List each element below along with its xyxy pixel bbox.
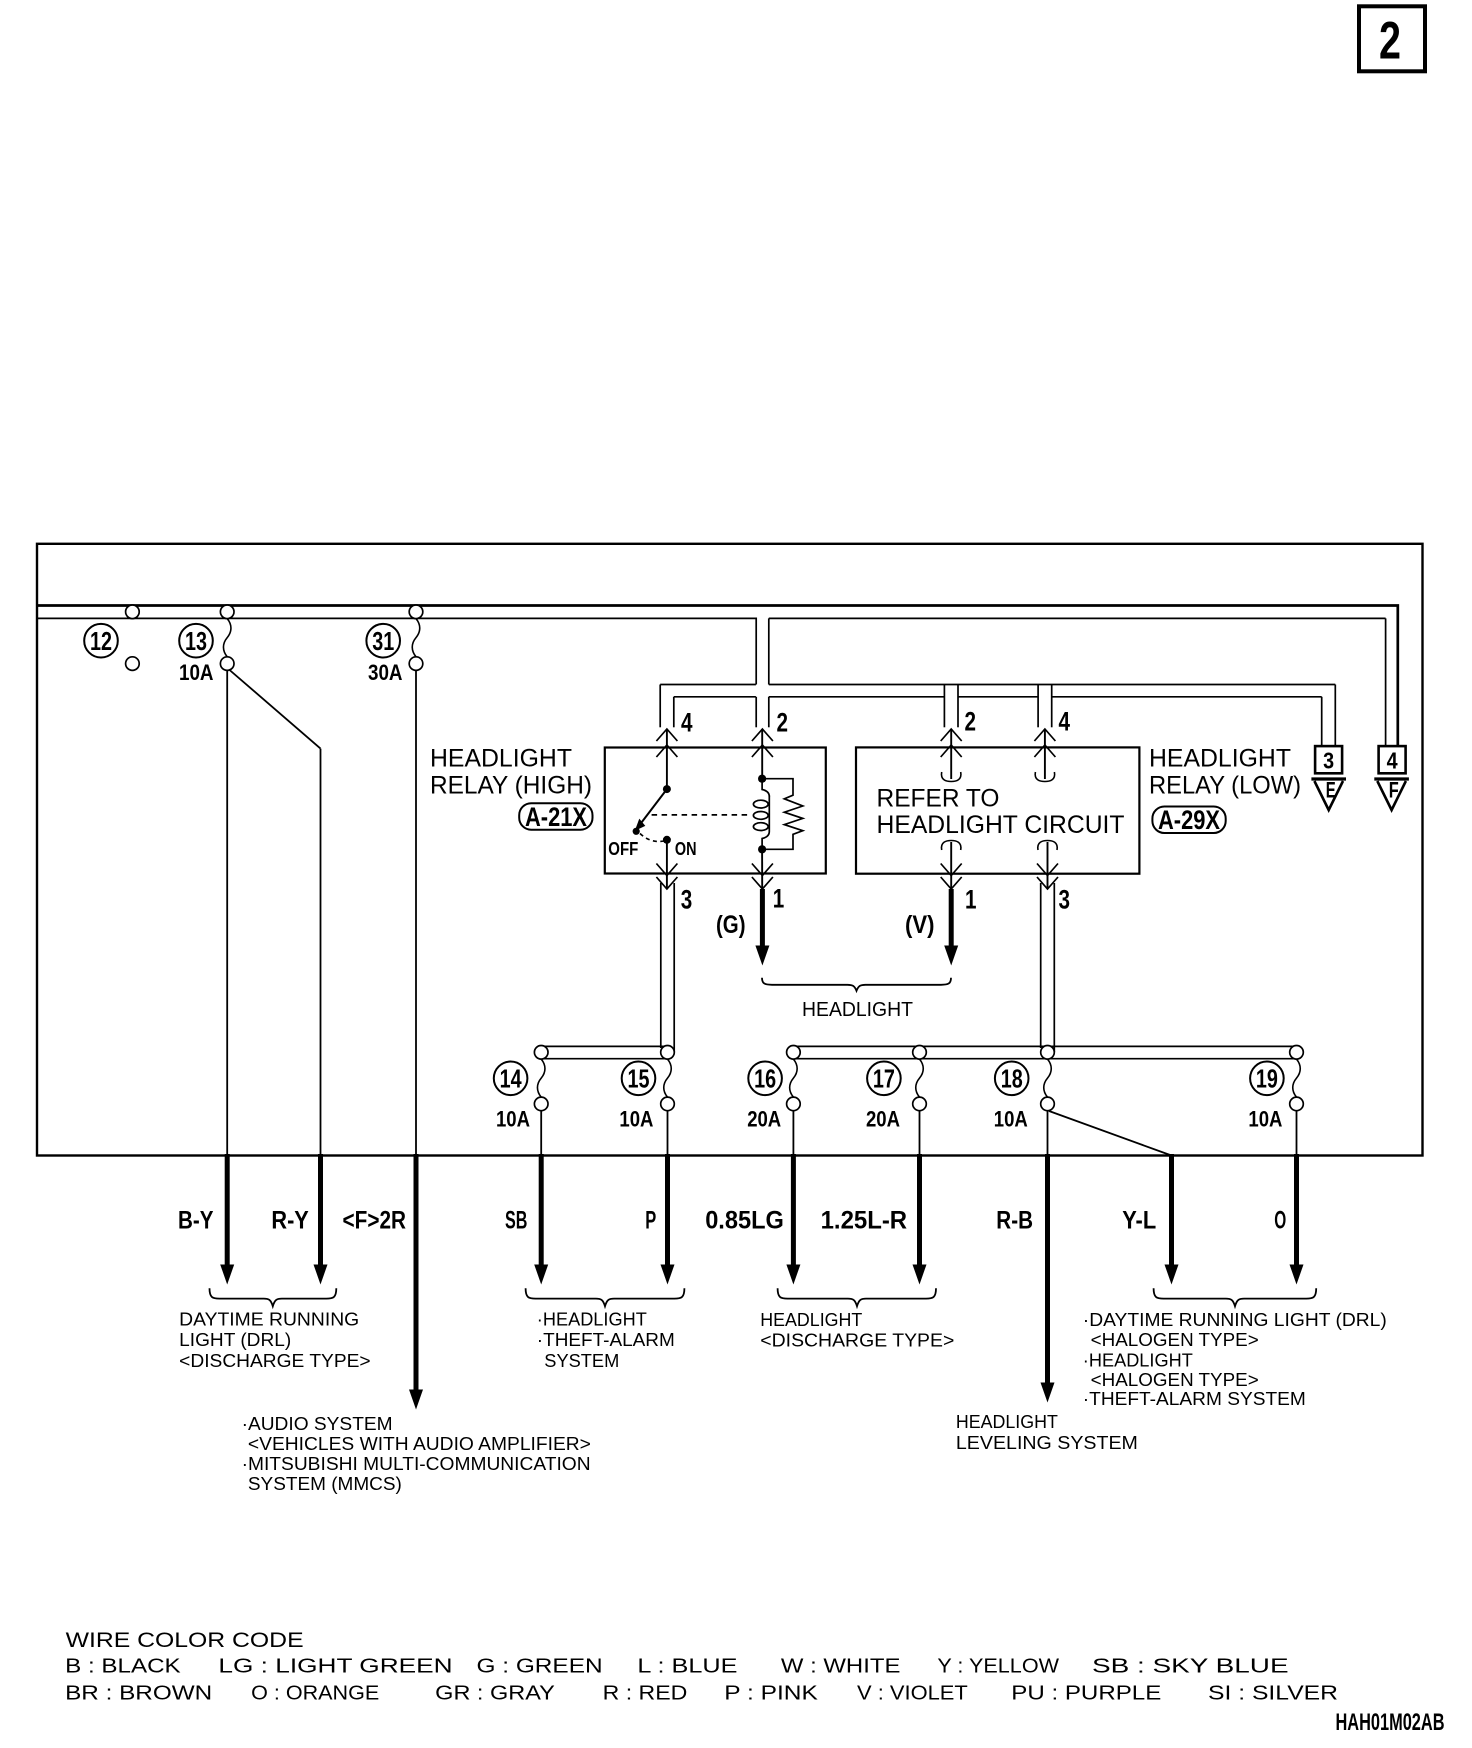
svg-text:4: 4 [681,708,693,738]
svg-text:SB : SKY BLUE: SB : SKY BLUE [1092,1655,1289,1678]
fuse 18 10A [994,1046,1054,1132]
svg-text:ON: ON [675,838,697,859]
refer-to-headlight-circuit box [856,747,1139,873]
svg-text:REFER TO: REFER TO [877,785,1000,813]
svg-text:20A: 20A [866,1106,900,1131]
svg-text:10A: 10A [496,1106,530,1131]
fuse 19 10A [1248,1046,1303,1132]
svg-text:·MITSUBISHI MULTI-COMMUNICATIO: ·MITSUBISHI MULTI-COMMUNICATION [242,1454,591,1474]
svg-text:P: P [645,1207,656,1235]
svg-text:0.85LG: 0.85LG [705,1207,784,1235]
svg-text:2: 2 [965,707,977,737]
svg-text:SB: SB [505,1207,527,1235]
svg-text:SYSTEM (MMCS): SYSTEM (MMCS) [248,1474,402,1494]
wire bus top line (battery feed) [38,606,1398,747]
svg-text:15: 15 [628,1064,650,1094]
fuse 16 20A [747,1046,800,1132]
svg-text:R-B: R-B [996,1207,1033,1235]
svg-text:·DAYTIME RUNNING LIGHT (DRL): ·DAYTIME RUNNING LIGHT (DRL) [1083,1310,1387,1330]
svg-text:1: 1 [965,885,977,915]
svg-text:F: F [1389,778,1399,803]
svg-text:V : VIOLET: V : VIOLET [857,1682,968,1705]
svg-text:Y : YELLOW: Y : YELLOW [937,1655,1059,1678]
relay-high coil [753,775,769,854]
wire drop to relay-high pin 2 [756,697,769,728]
wire bus second line [38,618,1386,746]
svg-text:2: 2 [1379,12,1401,71]
svg-text:<DISCHARGE TYPE>: <DISCHARGE TYPE> [760,1331,954,1351]
svg-text:LIGHT (DRL): LIGHT (DRL) [179,1330,291,1350]
svg-text:BR : BROWN: BR : BROWN [65,1682,212,1705]
svg-text:HEADLIGHT: HEADLIGHT [1149,745,1291,773]
svg-text:A-21X: A-21X [525,802,587,832]
fuse 15 10A [619,1046,674,1132]
svg-text:·HEADLIGHT: ·HEADLIGHT [1083,1350,1193,1370]
svg-text:1.25L-R: 1.25L-R [821,1207,908,1235]
wire drop to relay-high pin 4 [660,685,674,728]
relay-high resistor [762,779,803,850]
svg-text:LEVELING SYSTEM: LEVELING SYSTEM [956,1433,1138,1453]
svg-text:WIRE COLOR CODE: WIRE COLOR CODE [66,1629,304,1652]
wire <F>2R from fuse 31 [343,670,424,1409]
wire drop to refer-box pin 2 [944,685,958,728]
hollow sub-bus right (fuses 16-19) [793,1046,1296,1058]
svg-text:L : BLUE: L : BLUE [637,1655,737,1678]
svg-text:2: 2 [777,708,789,738]
relay-high pin 2 [752,708,788,779]
svg-text:HEADLIGHT: HEADLIGHT [760,1310,862,1330]
wire B-Y from fuse 13 [178,670,234,1284]
svg-text:(G): (G) [716,911,746,939]
refer-box pin 2 [941,707,976,782]
svg-text:19: 19 [1256,1064,1278,1094]
svg-text:O : ORANGE: O : ORANGE [251,1682,379,1705]
svg-text:<F>2R: <F>2R [343,1207,407,1235]
svg-text:<VEHICLES WITH AUDIO AMPLIFIER: <VEHICLES WITH AUDIO AMPLIFIER> [248,1434,591,1454]
svg-text:16: 16 [754,1064,776,1094]
wire 1.25L-R from fuse 17 [821,1111,927,1285]
svg-text:30A: 30A [368,660,403,685]
svg-text:10A: 10A [179,660,214,685]
svg-text:LG : LIGHT GREEN: LG : LIGHT GREEN [218,1655,452,1678]
svg-text:PU : PURPLE: PU : PURPLE [1011,1682,1161,1705]
relay U1 HEADLIGHT RELAY (HIGH) box [430,745,826,874]
connector code A-29X [1152,805,1225,835]
hollow wire refer-box pin 3 down to fuse 18 [1041,883,1055,1052]
svg-text:3: 3 [681,885,693,915]
svg-text:HEADLIGHT CIRCUIT: HEADLIGHT CIRCUIT [877,811,1125,839]
svg-text:W : WHITE: W : WHITE [781,1655,901,1678]
svg-text:4: 4 [1059,707,1071,737]
svg-text:3: 3 [1323,748,1334,774]
svg-text:HEADLIGHT: HEADLIGHT [956,1412,1058,1432]
svg-text:10A: 10A [994,1106,1028,1131]
svg-text:·HEADLIGHT: ·HEADLIGHT [537,1309,647,1329]
svg-text:10A: 10A [619,1106,653,1131]
wire drop to refer-box pin 4 [1038,685,1052,728]
svg-text:·THEFT-ALARM SYSTEM: ·THEFT-ALARM SYSTEM [1083,1389,1306,1409]
svg-text:17: 17 [873,1064,895,1094]
svg-text:HAH01M02AB: HAH01M02AB [1336,1709,1445,1736]
svg-text:<HALOGEN TYPE>: <HALOGEN TYPE> [1091,1370,1259,1390]
hollow wire horizontal run to relay pins and connector E [660,685,1335,747]
fuse 31 30A [366,605,422,685]
svg-text:R : RED: R : RED [603,1682,688,1705]
svg-text:12: 12 [90,626,112,656]
relay-high pin 1 wire (G) headlight arrow [716,849,784,965]
off-page triangle F [1374,778,1409,811]
fuse 17 20A [866,1046,926,1132]
svg-text:<HALOGEN TYPE>: <HALOGEN TYPE> [1091,1330,1259,1350]
connector 4 to page F [1379,746,1406,773]
svg-text:RELAY (HIGH): RELAY (HIGH) [430,772,592,800]
fuse 12 [84,605,139,670]
label HEADLIGHT RELAY (LOW) [1149,745,1301,800]
svg-text:HEADLIGHT: HEADLIGHT [430,745,572,773]
svg-text:E: E [1326,778,1336,803]
page number box 2 [1359,6,1425,71]
wire R-Y from fuse 13 [229,670,328,1285]
relay-high switch [608,785,696,859]
brace and label DRL halogen / headlight halogen / theft-alarm [1083,1288,1387,1409]
svg-text:18: 18 [1001,1064,1023,1094]
brace and label daytime running light (discharge) [179,1288,370,1371]
off-page triangle E [1311,778,1346,811]
svg-text:<DISCHARGE TYPE>: <DISCHARGE TYPE> [179,1351,370,1371]
wire R-B from fuse 18 [996,1111,1054,1403]
svg-text:OFF: OFF [608,838,638,859]
svg-text:Y-L: Y-L [1122,1207,1156,1235]
svg-text:GR : GRAY: GR : GRAY [435,1682,555,1705]
svg-text:B-Y: B-Y [178,1207,214,1235]
svg-text:B : BLACK: B : BLACK [65,1655,181,1678]
svg-text:HEADLIGHT: HEADLIGHT [802,998,913,1021]
svg-text:R-Y: R-Y [271,1207,309,1235]
hollow wire relay-high pin 3 down to fuse 15 [661,883,674,1052]
wire 0.85LG from fuse 16 [705,1111,800,1285]
wire Y-L from fuse 18 diagonal [1049,1111,1179,1285]
svg-text:SYSTEM: SYSTEM [544,1351,619,1371]
wire O from fuse 19 [1274,1111,1303,1285]
svg-text:4: 4 [1387,748,1398,774]
svg-text:RELAY (LOW): RELAY (LOW) [1149,772,1301,800]
wire P from fuse 15 [645,1111,674,1285]
fuse 13 10A [179,605,234,685]
svg-text:10A: 10A [1248,1106,1282,1131]
fuse 14 10A [494,1046,548,1132]
label audio system / MMCS [242,1414,591,1494]
brace and label headlight (discharge type) [760,1288,954,1350]
svg-text:(V): (V) [905,911,935,939]
svg-text:P : PINK: P : PINK [724,1682,818,1705]
drawing number HAH01M02AB [1336,1709,1445,1736]
junction block outline [37,544,1423,1156]
svg-text:·AUDIO SYSTEM: ·AUDIO SYSTEM [242,1414,393,1434]
svg-text:·THEFT-ALARM: ·THEFT-ALARM [537,1330,675,1350]
brace HEADLIGHT under (G)/(V) arrows [762,978,951,1021]
svg-text:1: 1 [773,884,785,914]
relay-high pin 4 [656,708,692,790]
brace and label headlight / theft-alarm system [526,1288,685,1371]
relay-high pin 3 [656,840,692,915]
wire SB from fuse 14 [505,1111,548,1285]
svg-text:SI : SILVER: SI : SILVER [1208,1682,1338,1705]
connector code A-21X [519,802,592,832]
svg-text:A-29X: A-29X [1158,805,1220,835]
wire color code legend [65,1629,1338,1705]
svg-text:G : GREEN: G : GREEN [477,1655,603,1678]
connector 3 to page E [1315,746,1342,773]
svg-text:14: 14 [500,1064,522,1094]
hollow sub-bus left (fuses 14-15) [541,1046,667,1058]
svg-text:DAYTIME RUNNING: DAYTIME RUNNING [179,1309,359,1329]
svg-text:3: 3 [1059,885,1071,915]
relay-high switch linkage dashed line [652,814,751,816]
svg-text:13: 13 [185,626,207,656]
refer-box pin 3 [1037,841,1070,915]
refer-box pin 4 [1034,707,1070,782]
label headlight leveling system [956,1412,1138,1453]
svg-text:31: 31 [372,626,394,656]
svg-text:20A: 20A [747,1106,781,1131]
svg-text:O: O [1274,1207,1286,1235]
refer-box pin 1 wire (V) headlight arrow [905,841,976,966]
